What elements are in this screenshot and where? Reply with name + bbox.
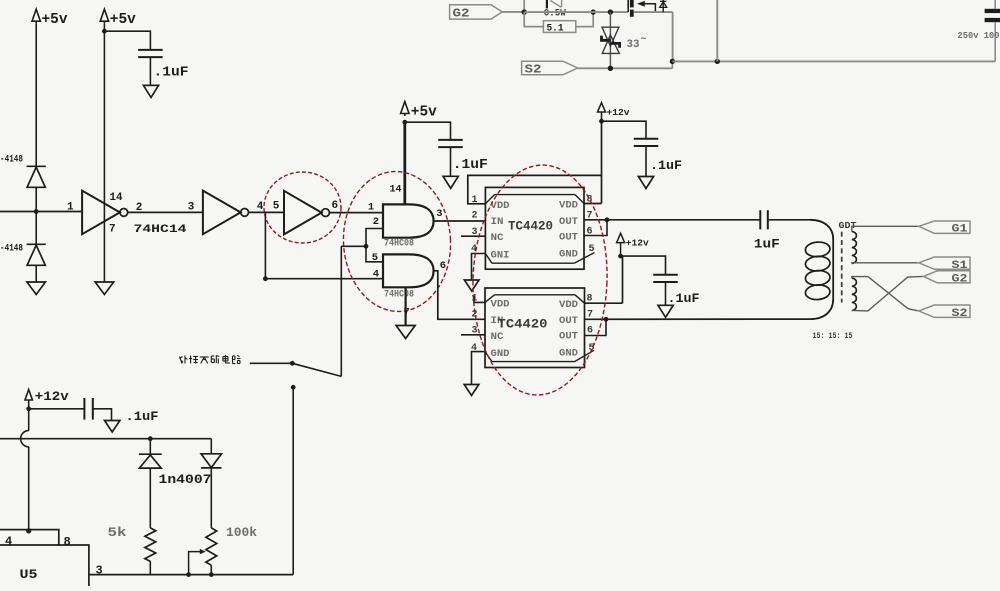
svg-text:100k: 100k — [226, 525, 257, 540]
wire U1B out to U1C in — [249, 211, 285, 213]
wire pin2+pin5 tie — [366, 229, 383, 262]
wire NC stub — [461, 235, 485, 237]
svg-text:3: 3 — [96, 563, 103, 577]
svg-text:6: 6 — [332, 200, 339, 212]
diode D3 — [149, 439, 151, 455]
ground — [396, 326, 415, 339]
wire input net — [0, 211, 82, 213]
svg-text:2: 2 — [373, 216, 379, 228]
wire — [645, 146, 647, 177]
junction — [402, 120, 407, 125]
ground — [105, 421, 120, 433]
svg-text:VDD: VDD — [559, 300, 578, 311]
svg-text:5: 5 — [273, 200, 280, 212]
wire to C1 — [104, 31, 150, 50]
wire sec1 to G1 — [852, 226, 919, 231]
ground — [658, 305, 673, 317]
junction — [364, 244, 369, 249]
wire U3 pin6 out tie — [584, 220, 607, 236]
wire diagonal — [292, 363, 341, 376]
wire U3 pin7 out — [584, 219, 760, 221]
tag S2 (right) — [919, 305, 970, 317]
svg-text:IN: IN — [491, 217, 504, 228]
primary loop 1 — [805, 241, 831, 257]
svg-text:GND: GND — [491, 349, 510, 360]
diode D4 1n4007 — [210, 439, 212, 454]
wire up from node (cut off) — [523, 0, 525, 12]
svg-text:74HC08: 74HC08 — [384, 238, 414, 250]
wire U3 VDD loop pin1-pin8 — [468, 175, 602, 203]
wire +12v to pin8 — [601, 121, 603, 203]
svg-text:5: 5 — [589, 244, 595, 255]
inner bottom line U4 — [492, 361, 575, 363]
wire U4 pin7 out — [585, 318, 811, 320]
wiper of R3 — [189, 552, 203, 575]
svg-text:7: 7 — [109, 224, 116, 236]
svg-text:-4148: -4148 — [0, 243, 23, 255]
chamfer — [485, 195, 494, 204]
svg-text:S2: S2 — [525, 63, 542, 76]
junction — [34, 209, 39, 214]
wire to C3 — [602, 121, 647, 139]
svg-text:+12v: +12v — [607, 108, 631, 118]
capacitor bulk 250v 100uF (cut at right edge) — [985, 9, 1000, 13]
wire down to arc-quench node — [340, 246, 342, 376]
wire U2B out to U4 IN — [434, 271, 485, 320]
junction — [290, 361, 295, 366]
junction — [186, 572, 191, 577]
svg-text:250v 100: 250v 100 — [958, 30, 1000, 41]
wire U4 pin6 out tie — [585, 319, 607, 335]
svg-text:OUT: OUT — [559, 217, 578, 228]
wire to GDT primary — [768, 219, 810, 221]
wire — [35, 187, 37, 211]
diode D4 1n4007 — [201, 454, 221, 468]
svg-text:~: ~ — [641, 35, 647, 46]
wire — [93, 409, 112, 421]
wire arc-quench — [250, 362, 292, 364]
svg-text:1n4007: 1n4007 — [159, 473, 212, 487]
svg-text:+5v: +5v — [42, 12, 68, 28]
wire to AND2 pin 4 — [265, 278, 383, 280]
capacitor C2 .1uF — [438, 139, 463, 141]
wire gnd pin7 — [405, 287, 407, 325]
red ellipse around U2 — [340, 169, 454, 314]
chamfer — [485, 295, 495, 303]
wire — [450, 147, 452, 176]
junction — [209, 572, 214, 577]
chamfer pin5 — [575, 350, 595, 361]
svg-text:.1uF: .1uF — [154, 65, 189, 81]
wire sec1 to S1 — [852, 262, 919, 265]
wire U4 pin4 gnd — [472, 352, 486, 385]
svg-text:74HC14: 74HC14 — [134, 224, 188, 236]
tag G2 (right) — [924, 271, 971, 283]
svg-text:6: 6 — [440, 260, 446, 272]
wire sec2 crossover to S2 — [852, 277, 919, 311]
svg-text:OUT: OUT — [559, 316, 578, 327]
power — [100, 9, 108, 21]
wire resistor to gate node — [576, 12, 593, 27]
transformer core — [841, 232, 843, 303]
svg-text:14: 14 — [110, 192, 123, 204]
potentiometer R3 100k — [206, 528, 217, 565]
wire U1A out to U1B in — [128, 211, 203, 213]
body diode of Q2 (cut off) — [662, 0, 664, 12]
U5 timer box (cut off) — [0, 530, 59, 545]
svg-text:TC4420: TC4420 — [508, 219, 553, 234]
wire to C4 — [621, 256, 666, 275]
svg-text:U5: U5 — [20, 567, 38, 582]
wire sec2 crossover to G2 — [852, 276, 924, 311]
svg-text:3: 3 — [436, 208, 442, 220]
ground — [95, 282, 114, 295]
svg-text:4: 4 — [5, 534, 12, 548]
transformer secondary winding 2 — [852, 278, 857, 310]
junction — [604, 317, 609, 322]
primary loop 4 — [805, 284, 831, 300]
inner top line U3 — [495, 194, 576, 196]
diode D3 — [139, 453, 162, 455]
diode D2 4148 — [27, 243, 46, 245]
svg-text:.1uF: .1uF — [453, 157, 488, 173]
svg-text:+12v: +12v — [626, 238, 650, 248]
junction — [263, 276, 268, 281]
wire source — [645, 4, 656, 12]
wire gate node — [524, 11, 628, 13]
wire U4 pin8 to +12v — [585, 302, 623, 304]
wire jog up — [671, 61, 673, 68]
inner bottom line U3 — [492, 262, 574, 264]
chamfer — [575, 195, 584, 204]
svg-text:5k: 5k — [108, 525, 127, 540]
tag S2 (top) — [522, 61, 578, 75]
capacitor C4 .1uF — [653, 274, 678, 276]
junction — [715, 59, 720, 64]
power +12v (rail 2) — [617, 233, 625, 242]
ground — [638, 177, 653, 189]
svg-text:1: 1 — [67, 202, 74, 214]
junction — [670, 59, 675, 64]
wire node4 down to U2B pin4 — [264, 212, 266, 278]
svg-text:2: 2 — [471, 211, 477, 222]
wire +12v down with hop-over — [28, 409, 30, 431]
wire — [210, 468, 212, 528]
svg-text:.1uF: .1uF — [668, 292, 700, 306]
svg-text:+5v: +5v — [110, 12, 136, 28]
transistor Q2 MOSFET (cut off at top) — [627, 0, 629, 12]
wire — [341, 245, 366, 247]
junction — [599, 119, 604, 124]
svg-text:TC4420: TC4420 — [498, 317, 548, 332]
junction — [522, 9, 527, 14]
svg-text:GND: GND — [559, 348, 578, 359]
primary loop 2 — [805, 255, 831, 271]
svg-text:+5v: +5v — [411, 104, 437, 120]
junction — [618, 254, 623, 259]
wire U2A out to U3 IN — [434, 220, 486, 222]
node endpoint — [291, 385, 296, 390]
chamfer — [575, 295, 585, 303]
capacitor C3 .1uF — [634, 138, 659, 140]
wire down to S2 rail — [672, 12, 674, 61]
svg-text:GDT: GDT — [839, 220, 857, 231]
ground — [143, 85, 158, 97]
resistor R2 5k — [145, 528, 156, 562]
junction — [148, 436, 153, 441]
svg-text:1: 1 — [368, 201, 374, 213]
svg-text:.1uF: .1uF — [650, 159, 682, 173]
svg-text:+12v: +12v — [35, 390, 70, 404]
svg-text:G2: G2 — [952, 274, 968, 286]
ground — [443, 176, 458, 188]
wire U5 pin3 net — [90, 574, 294, 576]
inverter U1C — [284, 191, 322, 235]
transformer GDT primary winding — [810, 220, 833, 319]
svg-text:NC: NC — [491, 233, 504, 244]
wire +5v to AND vcc — [403, 122, 406, 205]
svg-text:33: 33 — [627, 39, 640, 51]
tag S1 — [919, 257, 970, 269]
wire up (cut off) — [716, 0, 718, 61]
power — [25, 390, 33, 401]
wire — [149, 57, 151, 85]
wire S2 rail — [578, 67, 673, 69]
svg-text:-4148: -4148 — [0, 154, 23, 166]
wire G2 to gate node — [502, 11, 524, 13]
wire to drain-leg — [634, 11, 673, 13]
junction — [591, 9, 596, 14]
wire U1C out to U2A pin1 — [329, 212, 383, 214]
wire — [149, 468, 151, 528]
long wire to bulk cap — [672, 60, 995, 62]
ground — [464, 280, 479, 291]
inverter U1A — [82, 191, 120, 235]
svg-text:G2: G2 — [453, 7, 470, 20]
svg-text:VDD: VDD — [559, 201, 578, 212]
svg-text:4: 4 — [257, 201, 264, 213]
diode D1 4148 — [27, 165, 46, 167]
wire U4 pin1 stub — [474, 296, 485, 302]
svg-text:15: 15: 15: 15: 15: 15 — [813, 331, 853, 341]
junction — [608, 66, 613, 71]
wire down to U5 pin3 net — [292, 387, 294, 574]
wire to resistor R 5.1 — [524, 12, 543, 27]
wire — [35, 212, 37, 245]
ground — [464, 385, 479, 396]
tag G1 — [919, 221, 970, 233]
chamfer — [485, 352, 492, 362]
wire to C2 — [405, 122, 451, 140]
wire pin8 — [584, 203, 602, 205]
svg-text:S2: S2 — [952, 308, 968, 320]
svg-text:GNI: GNI — [491, 250, 510, 261]
junction — [608, 9, 613, 14]
junction — [605, 217, 610, 222]
and gate U2A — [383, 204, 434, 237]
junction — [102, 29, 107, 34]
wire — [35, 24, 37, 166]
red ellipse around U3/U4 — [469, 163, 611, 398]
and gate U2B — [383, 254, 434, 287]
red circle around U1C — [264, 172, 341, 243]
svg-text:OUT: OUT — [559, 233, 578, 244]
inner top line U4 — [495, 294, 576, 296]
wire — [29, 408, 85, 410]
wire through TVS — [609, 12, 611, 68]
junction U5 pin net — [26, 528, 31, 533]
svg-text:.1uF: .1uF — [126, 410, 159, 424]
wire NC stub — [461, 334, 485, 336]
power — [401, 102, 409, 114]
cut-off component above resistor — [546, 0, 548, 8]
svg-text:VDD: VDD — [491, 201, 510, 212]
wire — [35, 265, 37, 282]
resistor R1 5.1 0.5W (boxed) — [543, 21, 575, 33]
svg-text:74HC08: 74HC08 — [384, 288, 414, 300]
svg-text:14: 14 — [390, 183, 402, 195]
op-amp U3 TC4420 — [485, 187, 584, 269]
wire U3 pin4 gnd — [472, 254, 486, 281]
capacitor — [759, 210, 761, 229]
svg-text:8: 8 — [64, 535, 71, 549]
transformer secondary winding 1 — [852, 232, 857, 264]
wire — [665, 282, 667, 305]
svg-text:GND: GND — [559, 250, 578, 261]
tag G2 (top) — [450, 5, 503, 19]
junction — [26, 406, 31, 411]
chamfer — [485, 254, 492, 264]
op-amp U4 TC4420 — [485, 288, 585, 368]
svg-text:4: 4 — [373, 269, 379, 281]
inverter U1B — [203, 191, 241, 235]
capacitor C1 .1uF — [138, 49, 163, 51]
node: external arc-quench circuit label 外接灭弧电路 — [180, 357, 183, 364]
wire horizontal net — [0, 438, 211, 440]
svg-text:5.1: 5.1 — [547, 22, 564, 34]
capacitor — [83, 398, 85, 420]
chamfer pin5 — [574, 253, 594, 264]
svg-text:5: 5 — [372, 252, 378, 264]
svg-text:1uF: 1uF — [754, 236, 780, 251]
power — [32, 9, 40, 21]
svg-text:G1: G1 — [952, 224, 968, 236]
primary loop 3 — [805, 270, 831, 286]
ground — [27, 282, 46, 295]
wire +5v down through U1 to ground — [103, 24, 105, 282]
svg-text:OUT: OUT — [559, 332, 578, 343]
svg-text:VDD: VDD — [491, 300, 510, 311]
svg-text:3: 3 — [188, 202, 195, 214]
svg-text:0.5W: 0.5W — [544, 8, 567, 20]
svg-text:NC: NC — [491, 332, 504, 343]
power +12v (rail 1) — [598, 103, 606, 112]
